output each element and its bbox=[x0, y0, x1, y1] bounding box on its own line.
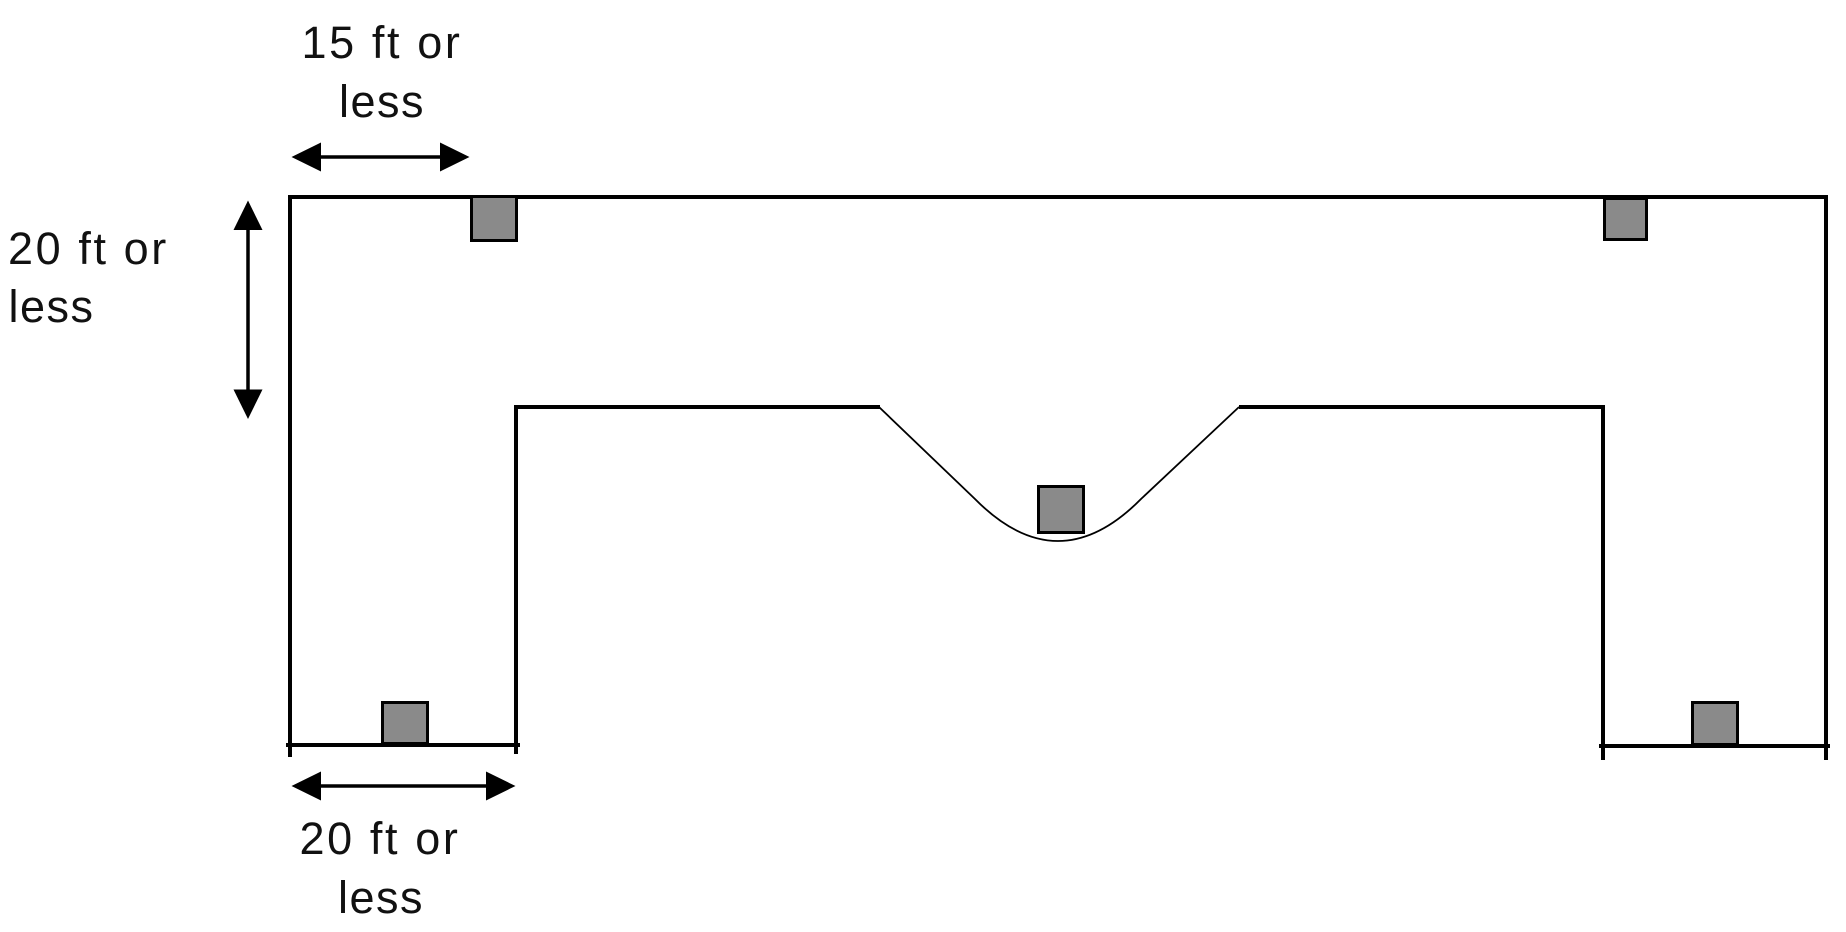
roof outline: left wing bottom edge bbox=[286, 743, 520, 747]
label: 20 ft or less (left) bbox=[8, 223, 169, 332]
svg-text:less: less bbox=[339, 76, 425, 127]
roof outline: right wing bottom edge bbox=[1599, 744, 1830, 748]
roof outline: inner horizontal edge left of valley bbox=[514, 405, 880, 409]
svg-text:15 ft or: 15 ft or bbox=[302, 17, 463, 68]
roof outline: left wing inner edge bbox=[514, 405, 518, 754]
roof outline: valley dip curve bbox=[879, 407, 1239, 541]
roof outline: left outer edge bbox=[288, 195, 292, 757]
dimension arrow: 15 ft (horizontal, top-left) bbox=[292, 143, 470, 172]
svg-text:less: less bbox=[9, 281, 95, 332]
label: 15 ft or less (top) bbox=[302, 17, 463, 127]
vent square: center valley bbox=[1039, 487, 1084, 533]
roof outline: inner horizontal edge right of valley bbox=[1239, 405, 1605, 409]
vent square: top-left bbox=[472, 197, 517, 241]
vent square: bottom-left bbox=[383, 703, 428, 744]
dimension arrow: 20 ft (vertical, left) bbox=[234, 201, 263, 420]
svg-text:20 ft or: 20 ft or bbox=[8, 223, 169, 274]
label: 20 ft or less (bottom) bbox=[300, 813, 461, 923]
vent square: top-right bbox=[1605, 199, 1647, 240]
dimension arrow: 20 ft (horizontal, bottom-left) bbox=[292, 772, 516, 801]
svg-text:20 ft or: 20 ft or bbox=[300, 813, 461, 864]
roof outline: right outer edge bbox=[1824, 195, 1828, 760]
roof outline: top edge bbox=[288, 195, 1828, 199]
roof outline: right wing inner edge bbox=[1601, 405, 1605, 760]
svg-text:less: less bbox=[338, 872, 424, 923]
vent square: bottom-right bbox=[1693, 703, 1738, 745]
